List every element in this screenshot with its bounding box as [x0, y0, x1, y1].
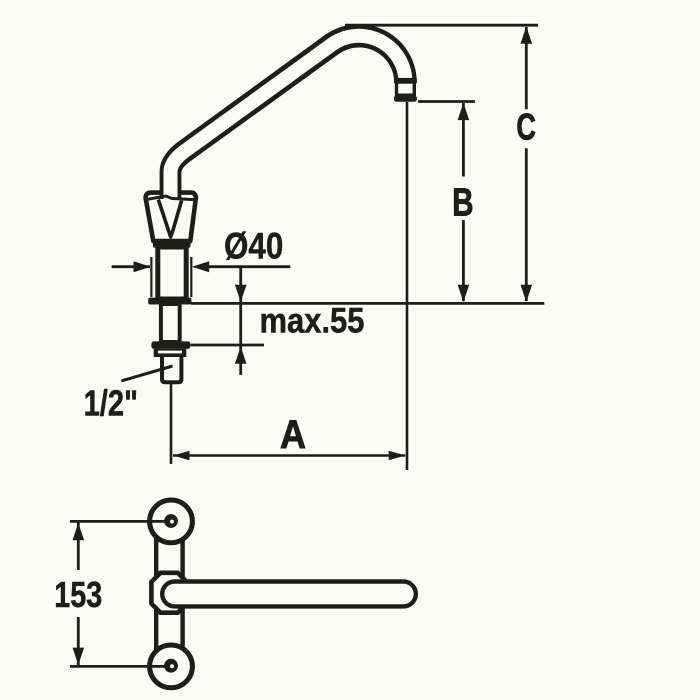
spout tube bore [164, 29, 413, 199]
dim D40 right line [209, 265, 290, 268]
plan bottom screw [164, 659, 178, 673]
dim C arrow down [521, 285, 533, 302]
leader line half inch [121, 366, 172, 381]
dim A line [173, 454, 405, 457]
knob collar [153, 240, 191, 248]
dim A arrow left [173, 451, 190, 461]
nut slot [158, 351, 182, 354]
dim D40 right arrow [192, 261, 209, 272]
dim max55 vline [239, 267, 242, 375]
flange [148, 298, 191, 305]
spout tube outline [160, 24, 417, 199]
D40 ext line right [190, 257, 192, 297]
dim 153 arrow down [73, 648, 85, 665]
aerator body [397, 82, 415, 95]
dim 153 bottom ext line [70, 665, 166, 668]
knob outline [146, 193, 196, 241]
knob top facet line [148, 196, 193, 200]
dim D40 left line [112, 265, 150, 268]
threaded pipe [162, 357, 181, 382]
svg-text:max.55: max.55 [260, 302, 365, 341]
dim B arrow down [458, 285, 470, 302]
top extension line C [345, 24, 538, 27]
nozzle centerline ext [406, 102, 409, 470]
spout nozzle joint band [394, 78, 417, 83]
dim 153 arrow up [73, 523, 85, 540]
nut extension line [191, 344, 265, 347]
max55 arrow up [235, 347, 247, 364]
nut [154, 349, 187, 357]
plan top screw [164, 514, 178, 528]
tap centerline ext [170, 384, 173, 464]
svg-text:A: A [280, 413, 306, 457]
svg-text:B: B [452, 182, 473, 225]
knob V facet [158, 200, 181, 238]
plan plate right line [180, 538, 184, 650]
dim C line [525, 27, 528, 109]
nozzle extension line B [418, 100, 475, 103]
plan bottom mount circle [150, 645, 193, 688]
D40 ext line left [150, 257, 152, 297]
dim 153 vline [77, 522, 80, 570]
dim B line [462, 103, 465, 177]
baseline [191, 302, 544, 305]
plan top mount circle [150, 500, 193, 543]
plan hex nut [151, 573, 186, 613]
svg-text:153: 153 [54, 574, 102, 615]
locking ring [151, 341, 190, 349]
max55 arrow down [235, 285, 247, 302]
dim C arrow up [521, 26, 533, 43]
plan spout arm [162, 582, 416, 607]
aerator cap [394, 97, 417, 102]
plan plate left line [154, 538, 158, 650]
dim 153 top ext line [70, 520, 166, 523]
dim D40 left arrow [134, 261, 151, 272]
body cylinder [158, 247, 186, 299]
svg-text:Ø40: Ø40 [224, 226, 283, 267]
svg-text:1/2": 1/2" [84, 383, 138, 424]
svg-text:C: C [516, 107, 536, 148]
dim A arrow right [389, 451, 406, 461]
tube below flange [161, 304, 180, 342]
dim B arrow up [458, 103, 470, 120]
